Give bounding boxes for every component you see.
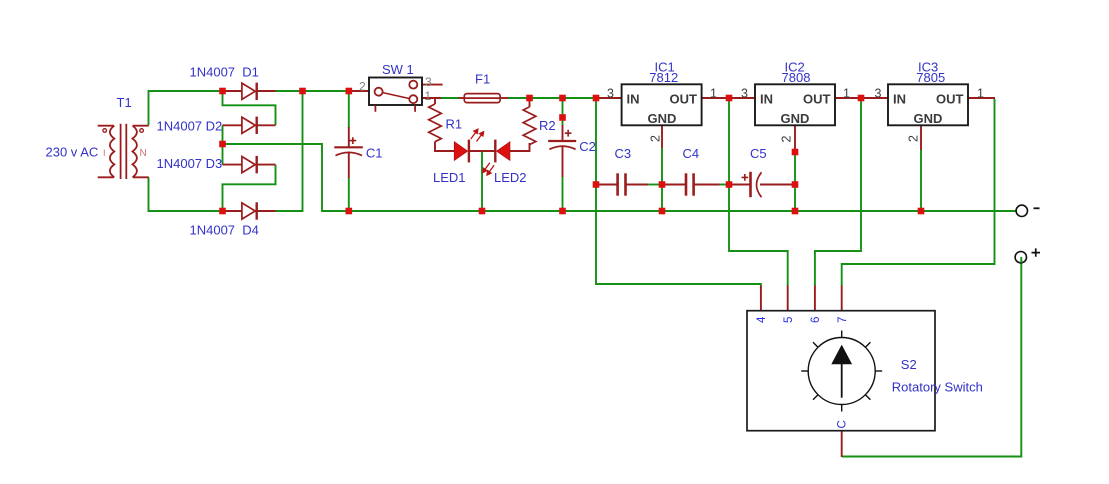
svg-text:GND: GND [781,111,810,126]
lead rotary pin 4 [760,286,762,312]
lead D1 anode [225,90,242,92]
lead SW1 pin3 stub [417,84,442,86]
svg-text:5: 5 [783,317,795,323]
resistor R1 [429,104,442,142]
capacitor C1 [334,137,363,155]
lead rotary pin 7 [841,286,843,312]
diode D4 [242,202,257,219]
diode D2 [242,117,257,134]
capacitor C5 [742,172,762,197]
svg-text:C5: C5 [750,146,767,161]
lead C1 bottom [348,153,350,178]
svg-text:1N4007 D3: 1N4007 D3 [157,156,223,171]
svg-text:3: 3 [875,87,882,101]
svg-text:C: C [837,420,849,428]
terminal plus stub inside [1020,257,1022,263]
lead rotary pin 5 [787,286,789,312]
node IC2 out junction [858,95,865,102]
node D2-D3 anode junction [219,141,226,148]
junction dots [219,88,924,215]
svg-text:1: 1 [843,87,850,101]
lead C2 top [562,125,564,141]
fuse F1 [464,94,500,103]
switch SW1 [369,78,422,112]
svg-text:Rotatory Switch: Rotatory Switch [892,380,983,395]
wire LED common down [481,152,483,209]
wire fuse to R2 junction [508,97,528,99]
LED LED2 [483,140,510,175]
rotary switch S2 box [747,311,935,431]
wires green [149,91,1022,457]
node fuse-R2 junction [526,95,533,102]
terminal plus sign [1032,248,1041,256]
wire D1 cathode to junction B [275,90,347,92]
wire raw tap down to rotary pin 4 [596,100,761,286]
node IC2 gnd stub junction [792,149,799,156]
wire C2 bottom [562,177,564,210]
terminal plus [1015,252,1026,263]
lead R2 top [529,98,531,107]
lead D2 anode [223,124,243,126]
capacitor C4 [686,173,694,195]
svg-text:IN: IN [627,92,640,107]
wire C2 top [562,99,564,126]
node C2 bottom junction [559,208,566,215]
red component leads [223,85,996,457]
terminal minus [1016,205,1027,216]
svg-text:230 v AC: 230 v AC [46,145,99,160]
lead C3 left [598,184,617,186]
svg-text:3: 3 [425,75,432,89]
lead SW1 pin1 [417,97,441,99]
lead IC3 in [863,97,888,99]
lead IC1 out [701,97,727,99]
node C3 right junction [659,181,666,188]
lead D2 cathode [257,124,276,126]
lead IC3 gnd [920,125,922,150]
svg-text:C1: C1 [366,146,383,161]
svg-text:1: 1 [710,87,717,101]
svg-text:R2: R2 [539,118,556,133]
lead IC1 gnd [661,125,663,148]
wire IC1 out 12V down to rotary pin 5 [729,100,788,286]
svg-text:4: 4 [756,316,768,323]
svg-text:2: 2 [907,135,921,142]
lead D4 anode [225,210,242,212]
wire D2 anode to D3 anode [222,125,224,164]
lead fuse left [459,97,465,99]
svg-text:7812: 7812 [649,70,678,85]
wire C1 bottom [348,178,350,210]
wire negative rail [225,144,1017,211]
svg-text:3: 3 [741,87,748,101]
svg-text:7: 7 [837,317,849,323]
svg-text:SW 1: SW 1 [382,62,414,77]
node C2 top junction [559,95,566,102]
node C5 right junction [792,181,799,188]
lead R1 top [434,98,436,104]
lead rotary common C [841,431,843,458]
svg-text:3: 3 [607,87,614,101]
wire SW1 pin1 to fuse [441,97,459,99]
lead IC2 gnd [794,125,796,149]
resistor R2 [523,107,536,145]
wire transformer bottom to AC2 node [149,178,221,212]
diode D1 [242,83,257,100]
regulator IC1 box [622,84,702,125]
svg-text:1N4007 D2: 1N4007 D2 [157,118,223,133]
wire C3 right short [648,184,660,186]
lead IC2 in [731,97,755,99]
svg-text:1N4007 D4: 1N4007 D4 [190,223,259,238]
wire transformer top to D1 anode [149,91,221,125]
wire IC2 gnd lower [794,155,796,209]
lead IC1 in [598,97,622,99]
node C3 left junction [593,181,600,188]
node C2 stub junction [559,114,566,121]
node IC2 gnd rail junction [792,208,799,215]
node LED common junction [479,208,486,215]
wire IC1 gnd lower [661,147,663,209]
lead C3 right [627,184,649,186]
svg-text:OUT: OUT [803,92,831,107]
lead LED2 anode to R2 [510,143,530,151]
svg-text:GND: GND [914,111,943,126]
wire IC2 out 8V down to rotary pin 6 [815,100,861,286]
regulator IC2 box [755,84,835,125]
svg-text:IN: IN [893,92,906,107]
capacitor C3 [618,173,626,195]
svg-text:IN: IN [760,92,773,107]
wire C4 right short [719,184,726,186]
wire junction B down to D4 cathode [275,92,303,211]
svg-text:OUT: OUT [936,92,964,107]
lead C4 right [695,184,720,186]
lead D1 cathode [257,90,276,92]
svg-text:2: 2 [359,80,366,94]
lead C1 top [348,127,350,147]
terminal minus sign [1034,207,1040,209]
wire IC3 out 5V down to rotary pin 7 [842,99,995,286]
node raw tap junction [593,95,600,102]
LED LED1 [454,129,483,162]
svg-text:1N4007 D1: 1N4007 D1 [190,65,259,80]
lead C4 left [665,184,686,186]
regulator IC3 box [888,84,968,125]
svg-text:N: N [140,148,147,159]
node C4-C5 junction [726,181,733,188]
rotary switch S2 dial [801,331,882,412]
lead fuse right [500,97,508,99]
lead IC3 out [968,97,995,99]
svg-text:I: I [103,148,106,158]
svg-text:F1: F1 [475,71,490,86]
svg-text:T1: T1 [117,95,132,110]
lead C5 right [760,184,792,186]
lead C5 left [732,184,750,186]
svg-text:7805: 7805 [916,70,945,85]
node AC1 junction [219,88,226,95]
lead C2 bottom [562,146,564,177]
transformer T1 [98,124,149,179]
lead rotary pin 6 [814,286,816,312]
svg-text:LED2: LED2 [494,170,527,185]
lead IC2 out [835,97,859,99]
svg-text:7808: 7808 [782,70,811,85]
svg-text:C4: C4 [683,146,700,161]
node C1 bottom junction [346,208,353,215]
wire R2 junction to IC1 input node [531,97,596,99]
lead D3 cathode [257,164,276,166]
node IC1 out junction [726,95,733,102]
node IC3 gnd rail junction [918,208,925,215]
lead SW1 pin2 [351,90,375,92]
svg-text:C3: C3 [615,146,632,161]
node plus bridge junction [299,88,306,95]
lead LED1 cathode to LED2 cathode [469,150,496,152]
diode D3 [242,156,257,173]
wire D3 cathode to AC2 node [223,165,276,211]
node IC1 gnd rail junction [659,208,666,215]
svg-text:2: 2 [649,135,663,142]
lead D4 cathode [257,210,276,212]
lead R1 bottom to LED1 [435,142,455,152]
capacitor C2 [548,130,576,150]
svg-text:1: 1 [977,87,984,101]
svg-text:GND: GND [648,111,677,126]
lead D3 anode [223,164,243,166]
svg-text:LED1: LED1 [433,170,466,185]
svg-text:6: 6 [810,317,822,323]
node AC2 junction [219,208,226,215]
svg-text:S2: S2 [901,357,917,372]
wire IC3 gnd lower [920,150,922,210]
svg-text:C2: C2 [579,139,596,154]
svg-text:2: 2 [780,136,794,143]
wire AC1 node down to D2 cathode [223,93,276,125]
node C1 top junction [346,88,353,95]
svg-text:1: 1 [425,89,432,103]
svg-text:OUT: OUT [670,92,698,107]
svg-text:R1: R1 [446,117,463,132]
wire C1 top [348,93,350,128]
wire rotary common to plus terminal [842,259,1021,457]
